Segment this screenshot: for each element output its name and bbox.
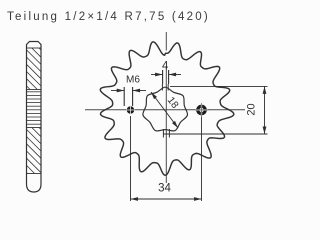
dim 34 ext lines bbox=[130, 116, 132, 201]
dim 4 ticks bbox=[162, 70, 164, 84]
dim 34 line + arrows bbox=[131, 198, 202, 200]
bore bottom slot bbox=[162, 129, 164, 138]
spline section horizontal lines bbox=[27, 91, 42, 93]
svg-text:M6: M6 bbox=[126, 75, 140, 86]
dim 18 diagonal line bbox=[151, 92, 178, 128]
hatch top bbox=[39, 48, 41, 50]
splined bore bbox=[143, 87, 188, 131]
vertical centerline bbox=[165, 32, 167, 51]
horizontal centerline bbox=[85, 109, 245, 111]
svg-text:4: 4 bbox=[162, 60, 169, 72]
dim 4 line + arrows bbox=[151, 74, 163, 76]
bolt hole left bbox=[127, 106, 135, 114]
dim 20 ext lines bbox=[170, 85, 268, 87]
side view outline bbox=[27, 42, 42, 193]
svg-text:Teilung 1/2×1/4 R7,75 (420): Teilung 1/2×1/4 R7,75 (420) bbox=[7, 11, 210, 23]
dim M6 ticks bbox=[123, 87, 125, 106]
svg-text:18: 18 bbox=[165, 95, 181, 111]
svg-text:34: 34 bbox=[158, 183, 171, 195]
dim 20 line + arrows bbox=[264, 86, 266, 134]
hatch bottom bbox=[39, 128, 41, 130]
sprocket outline bbox=[100, 42, 234, 175]
side view section lines bbox=[27, 47, 42, 49]
dim M6 line + arrows bbox=[111, 90, 124, 92]
bore top slot bbox=[161, 84, 163, 91]
bolt hole right bbox=[198, 106, 205, 113]
svg-text:20: 20 bbox=[246, 103, 258, 115]
